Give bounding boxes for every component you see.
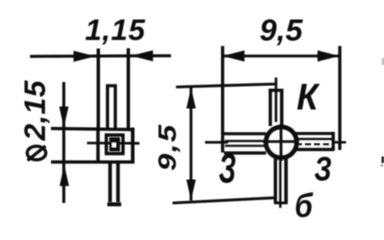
svg-text:б: б [295,187,314,224]
vertical axis line [275,78,278,123]
side view collector lead (inner U) [108,86,116,129]
right emitter lead (top view) [296,132,333,135]
package body circle (top view) [266,127,297,158]
left extension line (also emitter lead tip) [221,46,224,153]
side view base lead (bottom) [110,163,118,202]
svg-text:2,15: 2,15 [19,79,52,141]
Ø2,15 down arrowhead [59,107,68,128]
dimension line 9,5 horizontal with arrows [223,55,340,58]
svg-text:К: К [297,75,321,117]
Ø2,15 dimension line vertical [62,82,65,203]
side view centre contact (filled with white hole) [109,137,120,151]
bottom extension line for vertical 9,5 [173,198,275,203]
side view horizontal centerline [87,142,140,145]
top extension line for vertical 9,5 [176,84,276,87]
base lead (top view, down) [274,158,277,203]
dimension label Ø2,15 (rotated) [27,146,46,160]
side view inner rectangle (crystal holder) [106,135,123,154]
Ø2,15 up arrowhead [60,165,69,187]
side view body bottom edge with extension to Ø dimension [51,160,135,163]
side view body right edge [131,128,135,164]
dimension line 9,5 vertical [190,88,193,201]
right emitter lead tip [332,132,335,151]
side view right outer line (lead edge / extension) [127,48,130,128]
side view body top edge with extension to Ø dimension [51,129,135,130]
side view body left edge [96,127,99,164]
dimension line 1,15 left segment with arrow [30,54,171,58]
svg-text:З: З [219,146,236,192]
svg-text:9,5: 9,5 [260,13,304,48]
side view left outer line (lead edge / extension) [97,49,100,131]
svg-text:З: З [314,149,332,188]
collector lead (top view, up) [269,91,272,126]
right extension line [338,46,341,150]
left emitter lead (top view) [224,132,266,135]
svg-text:1,15: 1,15 [85,14,146,47]
horizontal axis line [205,141,228,144]
scan artifact marks at right edge [382,157,384,164]
svg-text:9,5: 9,5 [154,123,181,171]
